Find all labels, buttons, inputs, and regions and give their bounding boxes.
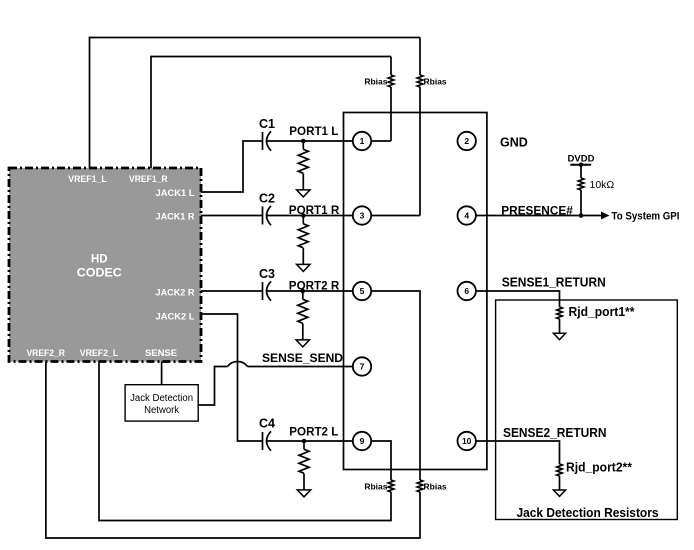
svg-text:4: 4 — [464, 211, 469, 221]
wire Rbias drop to pin3 — [419, 38, 421, 216]
wire resistor to ground — [559, 476, 561, 490]
capacitor C1 — [263, 131, 272, 150]
wire hop to pin7 — [248, 366, 354, 368]
svg-text:VREF1_R: VREF1_R — [129, 174, 168, 185]
svg-text:9: 9 — [360, 436, 365, 446]
svg-text:C4: C4 — [259, 417, 275, 431]
resistor PORT2 L bias — [299, 449, 309, 473]
svg-text:HD: HD — [91, 252, 108, 266]
wire pin9 to bottom Rbias — [371, 441, 391, 480]
ground arrow Rjd_port2 — [553, 490, 565, 496]
svg-text:Rbias: Rbias — [364, 482, 387, 492]
wire Rbias drop to pin1 — [390, 57, 392, 142]
wire junction to resistor — [302, 291, 304, 299]
svg-text:5: 5 — [360, 286, 365, 296]
wire VREF1_R riser — [151, 57, 391, 169]
capacitor C2 — [263, 206, 272, 225]
pin 9 — [353, 432, 371, 450]
wire pin4 PRESENCE# — [476, 215, 602, 217]
svg-text:VREF1_L: VREF1_L — [68, 174, 107, 185]
ground arrow PORT1 L — [297, 190, 310, 197]
wire junction to resistor — [302, 141, 304, 149]
resistor PORT1 R bias — [298, 224, 308, 248]
svg-text:2: 2 — [464, 136, 469, 146]
wire JACK2 L to C4 — [201, 314, 263, 441]
svg-text:PORT2 L: PORT2 L — [289, 425, 338, 439]
svg-text:Jack Detection: Jack Detection — [130, 393, 193, 404]
svg-text:Rjd_port1**: Rjd_port1** — [569, 305, 635, 319]
svg-text:PORT2 R: PORT2 R — [289, 279, 340, 293]
svg-text:To System GPI: To System GPI — [612, 211, 680, 223]
resistor Rbias top-left — [388, 75, 394, 87]
Jack Detection Resistors box — [496, 300, 678, 520]
resistor Rbias bottom-left — [388, 480, 394, 492]
pin 4 — [458, 206, 476, 224]
pin 5 — [353, 282, 371, 300]
arrow To System GPI — [601, 212, 610, 220]
node PORT2 L junction — [302, 439, 307, 444]
wire C1 to pin1 — [267, 140, 354, 142]
resistor Rbias top-right — [417, 75, 423, 87]
svg-text:JACK2 R: JACK2 R — [156, 288, 195, 299]
wire resistor to ground — [303, 474, 305, 490]
wire VREF1_L riser — [90, 38, 421, 169]
ground arrow PORT1 R — [297, 264, 310, 271]
wire Rbias to VREF2_R — [46, 362, 420, 539]
svg-text:3: 3 — [360, 211, 365, 221]
svg-text:PORT1 L: PORT1 L — [289, 124, 338, 138]
wire pin1 to Rbias — [371, 140, 391, 142]
svg-text:SENSE: SENSE — [145, 348, 177, 359]
resistor Rbias bottom-right — [417, 480, 423, 492]
wire resistor to ground — [302, 248, 304, 264]
resistor Rjd_port1 — [557, 307, 563, 319]
svg-text:Jack Detection Resistors: Jack Detection Resistors — [517, 505, 659, 520]
ground arrow Rjd_port1 — [553, 333, 565, 339]
svg-text:CODEC: CODEC — [77, 266, 122, 280]
wire resistor to ground — [559, 319, 561, 333]
svg-text:C1: C1 — [259, 117, 275, 131]
wire DVDD to resistor — [580, 165, 582, 178]
resistor Rjd_port2 — [557, 464, 563, 476]
wire JACK2 R to C3 — [201, 290, 263, 292]
svg-text:PRESENCE#: PRESENCE# — [501, 203, 573, 217]
resistor 10k pullup — [578, 178, 584, 190]
node PORT2 R junction — [301, 289, 306, 294]
wire C4 to pin9 — [267, 440, 354, 442]
node PORT1 L junction — [301, 139, 306, 144]
capacitor C3 — [263, 281, 272, 300]
wire resistor to PRESENCE wire — [580, 190, 582, 216]
svg-text:VREF2_R: VREF2_R — [26, 348, 65, 359]
node PORT1 R junction — [301, 213, 306, 218]
svg-text:GND: GND — [500, 135, 528, 149]
wire junction to resistor — [303, 441, 305, 449]
svg-text:SENSE2_RETURN: SENSE2_RETURN — [503, 426, 607, 440]
svg-text:7: 7 — [360, 362, 365, 372]
pin 6 — [458, 282, 476, 300]
node PRESENCE junction — [579, 213, 584, 218]
wire pin10 to Rjd_port2 — [476, 441, 560, 464]
wire resistor to ground — [302, 174, 304, 190]
svg-text:JACK1 L: JACK1 L — [156, 188, 195, 199]
wire hop over JACK2 L — [228, 362, 248, 367]
svg-text:C2: C2 — [259, 192, 275, 206]
svg-text:Rjd_port2**: Rjd_port2** — [566, 461, 632, 475]
svg-text:JACK2 L: JACK2 L — [156, 312, 195, 323]
svg-text:SENSE1_RETURN: SENSE1_RETURN — [502, 276, 606, 290]
wire resistor to ground — [302, 324, 304, 340]
wire Rbias to VREF2_L — [99, 362, 391, 521]
svg-text:Rbias: Rbias — [424, 482, 447, 492]
jack connector box — [344, 113, 487, 470]
wire C2 to pin3 — [267, 215, 354, 217]
svg-text:Rbias: Rbias — [364, 77, 387, 87]
resistor PORT1 L bias — [298, 149, 308, 173]
Jack Detection Network box — [125, 385, 198, 421]
svg-text:Rbias: Rbias — [424, 77, 447, 87]
wire JACK1 R to C2 — [201, 215, 263, 217]
pin 1 — [353, 132, 371, 150]
wire pin3 to Rbias drop — [371, 215, 420, 217]
svg-text:SENSE_SEND: SENSE_SEND — [262, 351, 343, 365]
wire junction to resistor — [302, 216, 304, 224]
capacitor C4 — [263, 431, 272, 450]
svg-text:PORT1 R: PORT1 R — [289, 203, 340, 217]
codec label HD CODEC — [77, 252, 122, 280]
HD CODEC block — [9, 168, 201, 362]
pin 3 — [353, 206, 371, 224]
wire pin6 to Rjd_port1 — [476, 291, 560, 307]
ground arrow PORT2 L — [297, 490, 310, 497]
svg-text:6: 6 — [464, 286, 469, 296]
svg-text:C3: C3 — [259, 267, 275, 281]
svg-text:Network: Network — [144, 405, 180, 416]
pin 7 — [353, 357, 371, 375]
ground arrow PORT2 R — [296, 340, 309, 347]
power DVDD — [568, 154, 595, 168]
wire C3 to pin5 — [267, 290, 354, 292]
pin 2 — [458, 132, 476, 150]
resistor PORT2 R bias — [298, 299, 308, 323]
wire pin5 to bottom Rbias drop — [371, 291, 420, 480]
wire SENSE to JDN — [161, 362, 163, 385]
svg-text:JACK1 R: JACK1 R — [156, 212, 195, 223]
svg-text:1: 1 — [360, 136, 365, 146]
svg-text:VREF2_L: VREF2_L — [80, 348, 119, 359]
svg-text:10: 10 — [462, 436, 472, 446]
svg-text:10kΩ: 10kΩ — [590, 179, 615, 191]
wire SENSE_SEND from JDN — [198, 367, 227, 406]
wire JACK1 L to C1 — [201, 141, 263, 192]
pin 10 — [458, 432, 476, 450]
